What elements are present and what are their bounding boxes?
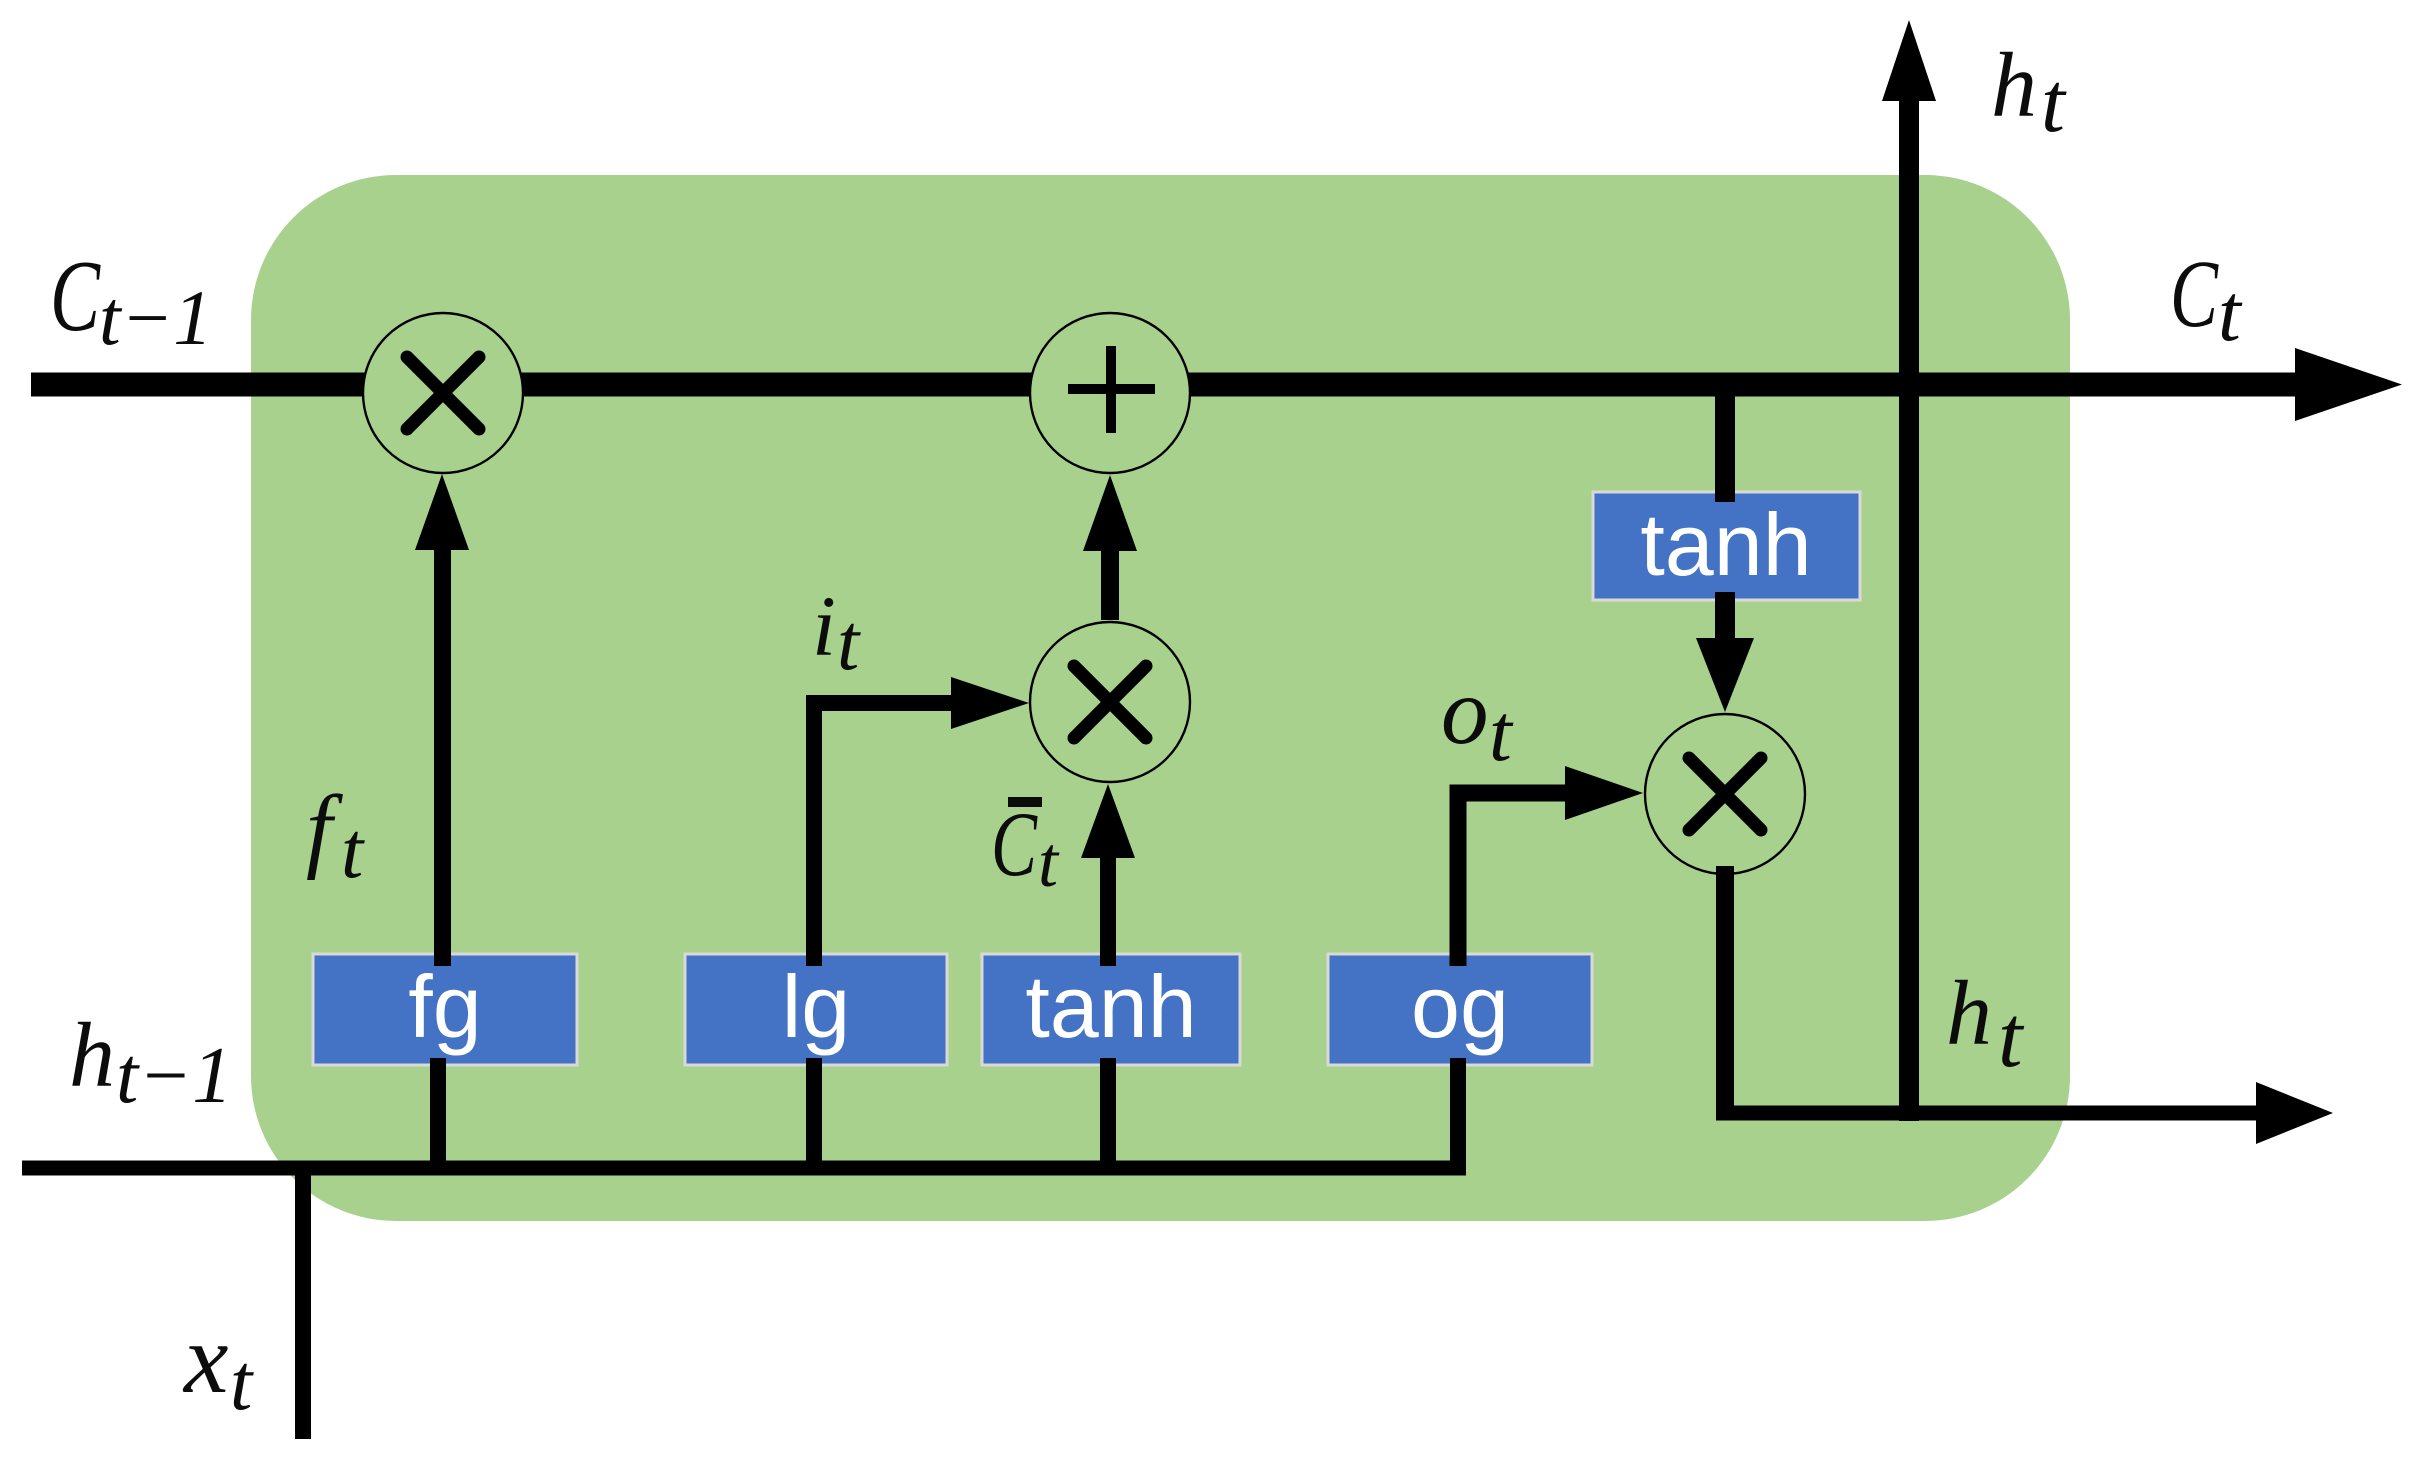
svg-text:t: t bbox=[230, 1339, 254, 1427]
svg-text:h: h bbox=[1991, 34, 2037, 136]
svg-text:t−1: t−1 bbox=[116, 1032, 232, 1120]
svg-text:tanh: tanh bbox=[1640, 495, 1811, 594]
svg-text:C: C bbox=[2170, 240, 2219, 347]
svg-text:t: t bbox=[837, 599, 861, 687]
svg-text:og: og bbox=[1411, 957, 1509, 1056]
svg-text:fg: fg bbox=[408, 957, 481, 1056]
svg-text:o: o bbox=[1441, 658, 1489, 764]
svg-text:t: t bbox=[1038, 822, 1060, 902]
svg-text:t: t bbox=[2218, 267, 2243, 358]
svg-text:x: x bbox=[182, 1303, 228, 1414]
svg-text:h: h bbox=[1946, 962, 1992, 1064]
svg-text:t: t bbox=[1489, 687, 1514, 778]
svg-text:h: h bbox=[69, 1004, 115, 1106]
svg-text:C: C bbox=[50, 240, 101, 353]
svg-text:t: t bbox=[2041, 54, 2067, 150]
svg-text:lg: lg bbox=[782, 957, 851, 1056]
svg-text:t−1: t−1 bbox=[99, 274, 212, 361]
svg-text:i: i bbox=[812, 578, 836, 674]
svg-text:t: t bbox=[341, 807, 365, 895]
svg-text:t: t bbox=[1998, 989, 2025, 1086]
svg-text:C: C bbox=[991, 793, 1038, 895]
svg-text:tanh: tanh bbox=[1025, 957, 1196, 1056]
